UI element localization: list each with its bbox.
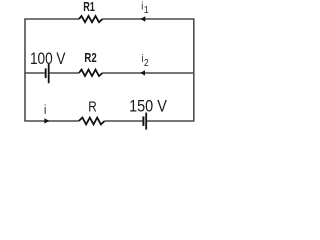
battery 150V: short thick plate (left) xyxy=(142,116,144,126)
resistor R1 xyxy=(79,16,103,22)
svg-text:R2: R2 xyxy=(84,52,96,66)
svg-text:150 V: 150 V xyxy=(129,97,167,115)
arrow i2 (points left) xyxy=(140,70,145,75)
resistor R xyxy=(79,118,105,125)
wire: top branch right segment xyxy=(103,18,195,20)
label R xyxy=(88,98,96,115)
battery 100V: long thin plate (right) xyxy=(48,64,50,83)
svg-text:i: i xyxy=(141,1,143,13)
wire: bottom branch middle segment xyxy=(105,120,143,122)
wire: top branch left segment xyxy=(24,18,79,20)
label 100 V xyxy=(30,50,66,69)
svg-text:1: 1 xyxy=(144,4,149,16)
battery 150V: long thin plate (right) xyxy=(145,113,147,130)
label 150 V xyxy=(129,97,167,115)
svg-text:R: R xyxy=(88,98,96,115)
wire: bottom branch right segment xyxy=(147,120,195,122)
wire: bottom branch left segment xyxy=(24,120,78,122)
resistor R2 xyxy=(79,70,103,76)
wire: middle branch left segment xyxy=(24,72,45,74)
label i1 xyxy=(141,1,148,17)
svg-text:R1: R1 xyxy=(83,1,95,15)
label R1 xyxy=(83,1,95,15)
wire: right vertical xyxy=(193,19,195,121)
svg-text:2: 2 xyxy=(144,57,149,69)
arrow i (points right) xyxy=(44,118,49,123)
arrow i1 (points left) xyxy=(141,16,146,21)
wire: middle branch right segment xyxy=(103,72,195,74)
label R2 xyxy=(84,52,96,66)
wire: left vertical xyxy=(24,19,26,121)
svg-text:i: i xyxy=(44,103,46,117)
label i2 xyxy=(142,53,149,69)
wire: middle branch between battery and R2 xyxy=(49,72,79,74)
svg-text:i: i xyxy=(142,53,144,65)
svg-text:100 V: 100 V xyxy=(30,50,66,69)
battery 100V: short thick plate (left) xyxy=(45,68,47,78)
label i xyxy=(44,103,46,117)
